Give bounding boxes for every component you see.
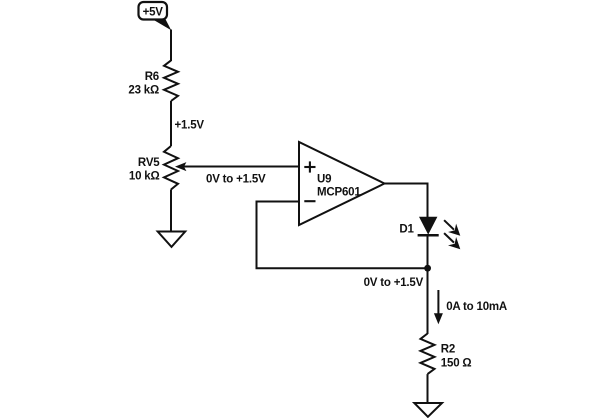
current arrow 0A to 10mA bbox=[434, 290, 443, 324]
svg-text:0A to 10mA: 0A to 10mA bbox=[446, 301, 507, 313]
svg-text:+5V: +5V bbox=[143, 6, 164, 18]
wire node to R2 bbox=[427, 268, 429, 334]
svg-text:23 kΩ: 23 kΩ bbox=[128, 85, 159, 97]
resistor R6 bbox=[164, 60, 178, 101]
LED D1 bbox=[418, 217, 439, 268]
svg-text:MCP601: MCP601 bbox=[317, 187, 361, 199]
LED light arrow 2 bbox=[444, 233, 460, 249]
wire flag to R6 bbox=[170, 30, 172, 62]
resistor R2 bbox=[421, 334, 435, 375]
svg-text:RV5: RV5 bbox=[138, 157, 160, 169]
svg-text:R6: R6 bbox=[145, 71, 159, 83]
svg-text:R2: R2 bbox=[441, 344, 455, 356]
svg-text:U9: U9 bbox=[317, 173, 331, 185]
wire feedback (- input to bottom node) bbox=[257, 202, 428, 269]
LED light arrow 1 bbox=[444, 220, 460, 236]
wire R2 to ground bbox=[427, 374, 429, 403]
wire op-amp output bbox=[385, 184, 428, 218]
node junction dot bbox=[424, 265, 431, 272]
wire R6 to RV5 bbox=[170, 101, 172, 146]
RV5 wiper arrow bbox=[175, 162, 299, 171]
svg-text:D1: D1 bbox=[399, 224, 414, 236]
op-amp U9 triangle bbox=[299, 142, 385, 225]
svg-text:+1.5V: +1.5V bbox=[175, 120, 205, 132]
svg-text:0V to +1.5V: 0V to +1.5V bbox=[206, 173, 266, 185]
op-amp - input symbol bbox=[304, 200, 315, 202]
wire RV5 to ground bbox=[170, 190, 172, 233]
potentiometer RV5 bbox=[164, 146, 178, 189]
op-amp + input symbol bbox=[304, 161, 315, 172]
svg-text:10 kΩ: 10 kΩ bbox=[129, 170, 160, 182]
ground (under RV5) bbox=[158, 232, 186, 247]
svg-text:150 Ω: 150 Ω bbox=[441, 358, 472, 370]
net flag +5V bbox=[139, 2, 172, 30]
ground (bottom) bbox=[414, 403, 442, 417]
svg-text:0V to +1.5V: 0V to +1.5V bbox=[364, 277, 424, 289]
